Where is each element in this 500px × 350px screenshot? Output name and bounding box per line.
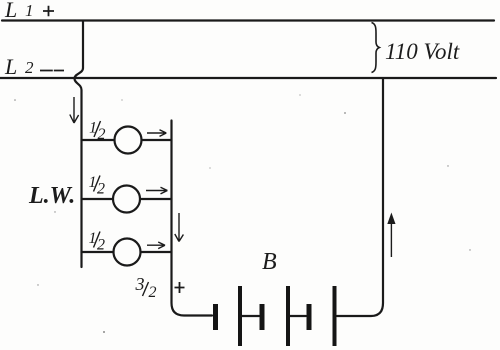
svg-text:2: 2 (97, 237, 105, 254)
svg-text:L.W.: L.W. (28, 183, 75, 209)
svg-text:110 Volt: 110 Volt (385, 39, 460, 64)
svg-text:2: 2 (25, 58, 34, 77)
svg-text:B: B (262, 249, 277, 275)
svg-text:L: L (4, 54, 17, 79)
svg-text:2: 2 (98, 126, 106, 143)
svg-text:3: 3 (135, 274, 145, 294)
svg-text:2: 2 (97, 181, 105, 198)
svg-text:L: L (4, 0, 17, 22)
svg-text:2: 2 (149, 284, 157, 301)
svg-text:1: 1 (25, 1, 34, 20)
